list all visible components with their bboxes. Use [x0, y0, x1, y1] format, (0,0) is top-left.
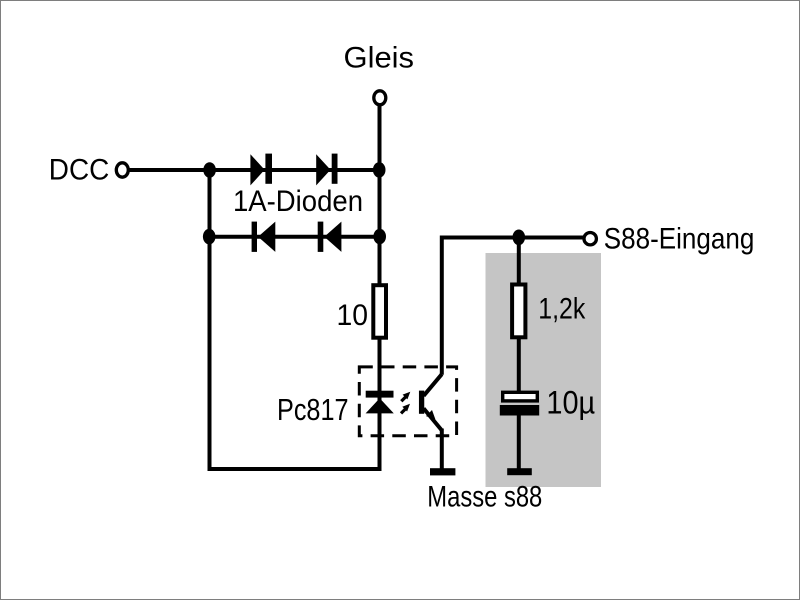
node E (S88 branch junction)	[513, 230, 526, 246]
diode D1 (1A, top row left, pointing right)	[250, 154, 272, 186]
capacitor C1 value 10u (electrolytic)	[500, 392, 539, 415]
gray highlight panel around R2/C1	[486, 253, 602, 487]
wire: R2/C1 branch vertical upper	[517, 238, 521, 401]
resistor R2 value 1,2k	[512, 285, 525, 338]
terminal S88-Eingang	[584, 233, 596, 245]
wire: bottom return	[208, 467, 382, 471]
diode D2 (1A, top row right, pointing right)	[316, 154, 337, 186]
node A (DCC junction top left)	[203, 162, 216, 178]
diode D3 (1A, bottom row left, pointing left)	[252, 222, 276, 252]
wire: emitter vertical to ground	[440, 429, 444, 469]
wire: DCC to node B (top horizontal)	[126, 168, 380, 172]
wire: left vertical (node A down to bottom return)	[208, 168, 212, 471]
diode D4 (1A, bottom row right, pointing left)	[318, 222, 342, 252]
wire: S88 horizontal	[442, 236, 584, 240]
node D (bottom row right junction)	[373, 229, 386, 245]
svg-text:1A-Dioden: 1A-Dioden	[233, 185, 363, 218]
node B (top right junction)	[373, 162, 386, 178]
resistor R1 value 10	[373, 285, 386, 338]
wire: collector vertical	[440, 236, 444, 375]
svg-text:1,2k: 1,2k	[538, 293, 586, 326]
ground bar (capacitor)	[507, 468, 532, 475]
wire: lower diode branch (node C to node D)	[210, 235, 380, 239]
light arrow 2	[401, 404, 410, 414]
wire: C1 to ground vertical	[517, 405, 521, 469]
svg-text:Gleis: Gleis	[344, 42, 415, 75]
LED inside optocoupler (cathode bar + triangle)	[366, 391, 394, 414]
terminal DCC	[116, 163, 128, 177]
svg-text:10µ: 10µ	[546, 384, 595, 420]
node C (bottom row left junction)	[203, 229, 216, 245]
ground bar (emitter, Masse s88)	[430, 468, 455, 475]
svg-text:10: 10	[337, 299, 369, 332]
terminal Gleis	[374, 91, 386, 105]
phototransistor of optocoupler	[422, 374, 442, 430]
svg-text:Masse s88: Masse s88	[427, 480, 542, 513]
wire: Gleis vertical through R1 and LED	[378, 100, 382, 471]
svg-text:DCC: DCC	[49, 154, 110, 187]
svg-text:Pc817: Pc817	[277, 393, 349, 427]
optocoupler U1 Pc817 dashed outline	[359, 367, 456, 436]
svg-text:S88-Eingang: S88-Eingang	[604, 222, 755, 255]
light arrow 1	[401, 392, 410, 402]
